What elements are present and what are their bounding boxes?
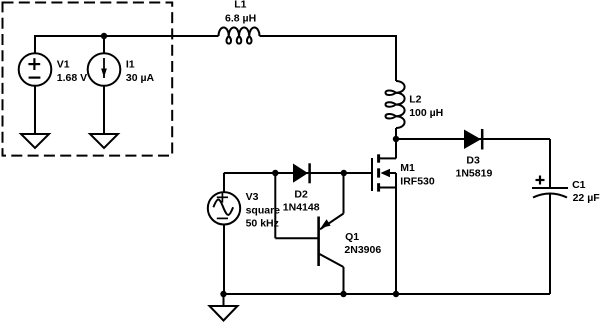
svg-text:D2: D2 (294, 188, 308, 200)
svg-text:I1: I1 (126, 59, 135, 71)
svg-text:50 kHz: 50 kHz (246, 218, 279, 230)
svg-text:L2: L2 (409, 94, 421, 106)
svg-text:D3: D3 (466, 154, 480, 166)
svg-text:100 µH: 100 µH (409, 107, 443, 119)
svg-text:Q1: Q1 (345, 231, 359, 243)
svg-text:2N3906: 2N3906 (344, 244, 381, 256)
svg-text:C1: C1 (572, 179, 586, 191)
svg-text:1N4148: 1N4148 (283, 202, 320, 214)
svg-text:30 µA: 30 µA (126, 72, 155, 84)
svg-text:1N5819: 1N5819 (456, 167, 493, 179)
svg-text:1.68 V: 1.68 V (57, 72, 87, 84)
svg-text:M1: M1 (400, 162, 415, 174)
svg-text:IRF530: IRF530 (400, 176, 435, 188)
svg-text:L1: L1 (234, 0, 246, 11)
svg-text:22 µF: 22 µF (573, 192, 600, 204)
svg-text:6.8 µH: 6.8 µH (225, 13, 256, 25)
svg-text:V1: V1 (57, 59, 70, 71)
svg-text:V3: V3 (246, 191, 259, 203)
svg-text:square: square (246, 205, 281, 217)
